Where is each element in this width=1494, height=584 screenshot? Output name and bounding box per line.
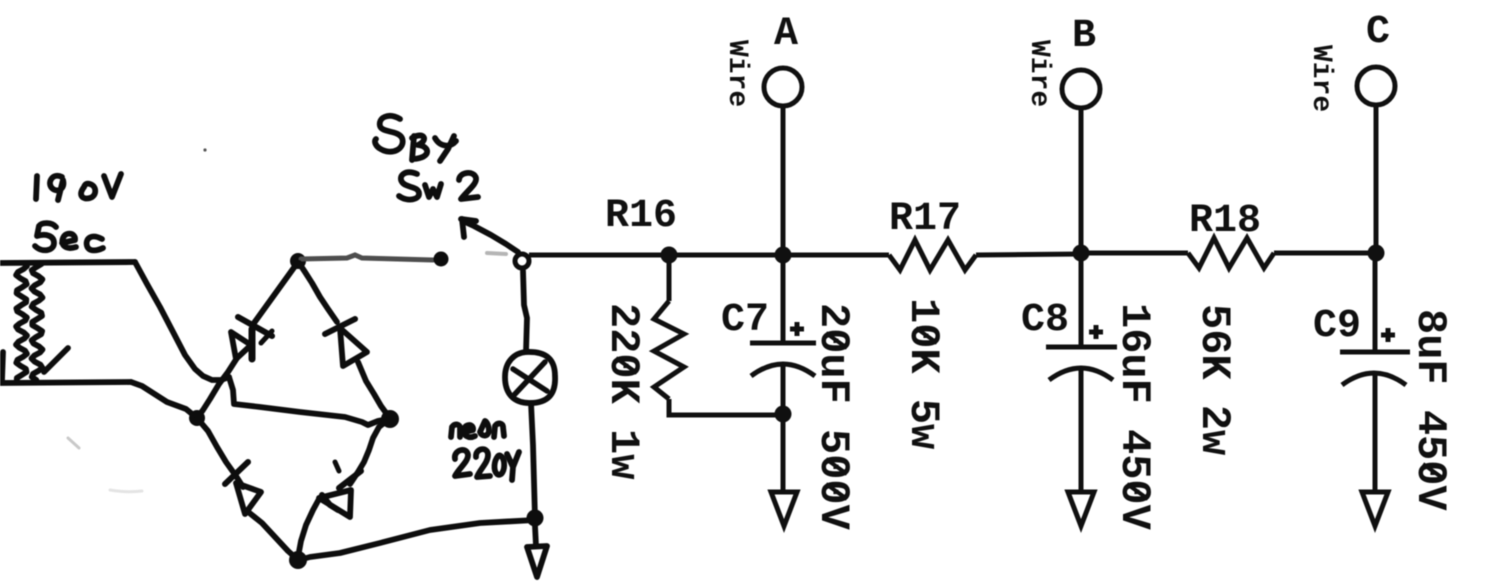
wire: secondary bottom lead [0, 382, 131, 383]
label Wire (terminal B) [1023, 40, 1054, 107]
label 190V [36, 174, 121, 200]
svg-text:10K 5w: 10K 5w [899, 298, 947, 449]
svg-text:Wire: Wire [1305, 45, 1336, 112]
faint pencil smudges [68, 148, 506, 491]
label A [774, 12, 798, 57]
label Sec [35, 223, 103, 250]
node: C7 / R16 bottom junction [775, 406, 792, 423]
wire: junction to bridge node B [299, 520, 535, 560]
node: C8 / terminal B junction [1073, 245, 1090, 262]
node B (bridge bottom, - output) [289, 551, 307, 569]
resistor R17 [889, 240, 976, 270]
capacitor C9 curved plate [1342, 373, 1406, 385]
wire: R16 bottom to C7 junction [669, 399, 783, 415]
wire: bus R18 to C9 node [1274, 251, 1376, 256]
wire: neon lamp down to junction [531, 403, 535, 518]
ground (below C7) [771, 492, 797, 526]
label 220K 1w (value of R16) [599, 303, 647, 479]
label C [1366, 10, 1390, 55]
polarity + of C9 [1381, 328, 1395, 342]
wire: terminal B down to bus node [1079, 108, 1084, 253]
wire: junction stub to ground [535, 526, 536, 546]
diode D1 [231, 317, 272, 359]
label R17 [889, 197, 961, 242]
svg-text:R16: R16 [605, 194, 677, 239]
node: R16 junction [661, 247, 678, 264]
label 8uF 450V (value of C9) [1406, 309, 1454, 511]
svg-text:56K 2w: 56K 2w [1190, 304, 1238, 455]
capacitor C8 plus plate [1046, 345, 1117, 350]
wire: junction down to ground [781, 414, 786, 492]
svg-text:A: A [774, 12, 798, 57]
wire: bottom lead to node L [131, 382, 197, 418]
wire: bus R16 node to C7 node [669, 253, 783, 258]
svg-text:C8: C8 [1021, 298, 1069, 343]
svg-text:R18: R18 [1189, 199, 1261, 244]
capacitor C9 plus plate [1340, 350, 1410, 355]
wire: diode D2 to node R [358, 362, 389, 417]
wire: node T to diode D2 [299, 263, 337, 322]
wire: bus C7 node to R17 [783, 253, 889, 258]
svg-text:R17: R17 [889, 197, 961, 242]
label B [1072, 14, 1096, 59]
label C8 [1021, 298, 1069, 343]
wire: secondary top lead [0, 262, 135, 263]
diode D3 [225, 462, 261, 514]
label Wire (terminal C) [1305, 45, 1336, 112]
label Sw2 [399, 172, 478, 199]
transformer secondary winding [2, 263, 68, 381]
wire: C9 down to ground [1373, 373, 1378, 492]
wire: bus node down to C8 [1079, 253, 1084, 347]
terminal C [1357, 67, 1395, 105]
wire: node L down to diode D3 [197, 418, 243, 487]
diode D2 [325, 319, 367, 366]
wire: AC mid line to node R [229, 377, 388, 425]
svg-text:C: C [1366, 10, 1390, 55]
node: C9 / terminal C junction [1368, 245, 1385, 262]
wire: main bus switch to R16 node [529, 253, 669, 258]
node R (bridge right) [381, 410, 399, 428]
label neon [451, 421, 504, 437]
node T (bridge top, + output) [290, 253, 306, 269]
svg-text:8uF 450V: 8uF 450V [1406, 309, 1454, 511]
label 220V [455, 449, 519, 480]
capacitor C7 plus plate [750, 341, 816, 346]
wire: bus R17 to C8 node [976, 254, 1081, 255]
node: neon / bridge return junction [527, 510, 544, 527]
switch Sw2 lever arrow [461, 219, 518, 252]
svg-text:C9: C9 [1313, 304, 1361, 349]
polarity + of C7 [790, 322, 804, 336]
wire: secondary top lead to bridge AC node [135, 262, 229, 380]
label 10K 5w (value of R17) [899, 298, 947, 449]
wire: terminal C down to bus node [1374, 105, 1379, 253]
wire: bus C8 node to R18 [1081, 251, 1188, 256]
wire: terminal A down to bus node [781, 106, 786, 255]
switch Sw2 pole terminal [515, 254, 529, 268]
node: switch fixed contact [434, 252, 449, 267]
label 16uF 450V (value of C8) [1110, 303, 1158, 531]
diode D4 [319, 462, 361, 517]
wire: bus node down to C7 [781, 255, 786, 343]
ground (hand-drawn below neon junction) [527, 546, 547, 577]
label 56K 2w (value of R18) [1190, 304, 1238, 455]
label Wire (terminal A) [721, 40, 752, 107]
resistor R16 220K vertical [654, 255, 684, 399]
label R18 [1189, 199, 1261, 244]
wire: diode D3 to node B [247, 511, 297, 559]
wire: C7 to lower junction [781, 363, 786, 414]
svg-text:Wire: Wire [721, 40, 752, 107]
wire: node L up to diode D1 [197, 358, 237, 418]
label SBY [375, 116, 456, 161]
svg-text:Wire: Wire [1023, 40, 1054, 107]
wire: bus node down to C9 [1373, 253, 1378, 352]
node: C7 / terminal A junction [775, 247, 792, 264]
wire: switch down to neon lamp [523, 271, 527, 352]
ground (below C8) [1068, 492, 1094, 526]
wire: C8 down to ground [1079, 368, 1084, 492]
svg-text:16uF 450V: 16uF 450V [1110, 303, 1158, 531]
label 20uF 500V (value of C7) [809, 303, 857, 531]
wire: diode D4 to node B [298, 499, 319, 557]
resistor R18 [1188, 238, 1274, 268]
node L (bridge left) [189, 410, 205, 426]
wire: node R down to diode D4 [350, 419, 389, 484]
label C9 [1313, 304, 1361, 349]
capacitor C7 curved plate [751, 364, 815, 376]
neon lamp [505, 352, 555, 403]
polarity + of C8 [1089, 325, 1103, 339]
terminal B [1062, 70, 1100, 108]
wire: diode D1 to node T [254, 262, 298, 323]
svg-text:C7: C7 [721, 298, 769, 343]
label C7 [721, 298, 769, 343]
capacitor C8 curved plate [1049, 368, 1113, 380]
label R16 [605, 194, 677, 239]
terminal A [764, 68, 802, 106]
wire: node T to switch contact [301, 255, 433, 260]
ground (below C9) [1362, 492, 1388, 526]
svg-text:220K 1w: 220K 1w [599, 303, 647, 479]
svg-text:B: B [1072, 14, 1096, 59]
